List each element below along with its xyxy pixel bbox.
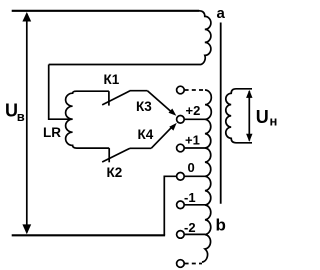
transformer core bbox=[220, 23, 222, 204]
stub -1 bbox=[185, 204, 205, 206]
wire K2 to K4 bbox=[130, 147, 151, 149]
stub +2 bbox=[185, 118, 205, 120]
top spare tap circle (dashed) bbox=[177, 86, 185, 94]
K1 blade bbox=[102, 91, 130, 105]
U_B bottom arrowhead bbox=[22, 224, 31, 234]
wire K1 to K3 bbox=[130, 90, 148, 92]
K3 selector arm bbox=[147, 91, 171, 112]
bottom rail bbox=[12, 234, 165, 236]
svg-text:К1: К1 bbox=[104, 72, 120, 87]
tap circle -1 bbox=[177, 201, 185, 209]
reactor LR coil with top/bottom leads bbox=[66, 91, 110, 148]
stub 0 bbox=[185, 175, 205, 177]
svg-text:н: н bbox=[270, 114, 278, 129]
bottom spare tap circle (dashed) bbox=[177, 260, 185, 268]
K2 fixed contact bar bbox=[108, 148, 110, 162]
svg-text:b: b bbox=[216, 216, 226, 235]
svg-text:в: в bbox=[17, 109, 25, 124]
regulating tap winding bbox=[202, 90, 211, 262]
wire from tap 0 to bottom rail bbox=[164, 176, 176, 235]
svg-text:+1: +1 bbox=[185, 132, 200, 147]
K2 blade bbox=[102, 148, 130, 162]
svg-text:-1: -1 bbox=[184, 190, 196, 205]
K4 arrowhead bbox=[169, 123, 176, 131]
U_B top arrowhead bbox=[22, 12, 31, 22]
winding section a (series winding) bbox=[49, 11, 211, 65]
svg-text:a: a bbox=[217, 5, 226, 22]
U_H top arrowhead bbox=[246, 90, 252, 98]
stub +1 bbox=[185, 147, 205, 149]
K1 fixed contact bar bbox=[108, 91, 110, 105]
dashed lead of bottom spare tap bbox=[185, 263, 202, 265]
tap circle +2 bbox=[177, 116, 185, 124]
top rail (line to point a) bbox=[12, 10, 200, 12]
K4 selector arm bbox=[151, 127, 172, 149]
svg-text:LR: LR bbox=[43, 125, 61, 140]
stub -2 bbox=[185, 233, 205, 235]
dimension line U_H bbox=[248, 91, 250, 141]
tap circle -2 bbox=[177, 231, 185, 239]
tap circle 0 bbox=[177, 173, 185, 181]
svg-text:U: U bbox=[256, 107, 269, 127]
tap circle +1 bbox=[177, 144, 185, 152]
U_H bottom arrowhead bbox=[246, 134, 252, 142]
svg-text:0: 0 bbox=[188, 160, 195, 175]
K3 arrowhead bbox=[169, 109, 177, 116]
svg-text:К4: К4 bbox=[138, 127, 154, 142]
svg-text:-2: -2 bbox=[184, 220, 196, 235]
svg-text:К3: К3 bbox=[136, 99, 152, 114]
wire: winding a bottom to reactor centre tap bbox=[49, 65, 73, 120]
secondary winding with leads bbox=[226, 89, 252, 143]
dashed lead of top spare tap bbox=[185, 89, 205, 91]
svg-text:+2: +2 bbox=[186, 103, 201, 118]
dimension line U_B bbox=[26, 14, 28, 233]
svg-text:К2: К2 bbox=[107, 165, 123, 180]
